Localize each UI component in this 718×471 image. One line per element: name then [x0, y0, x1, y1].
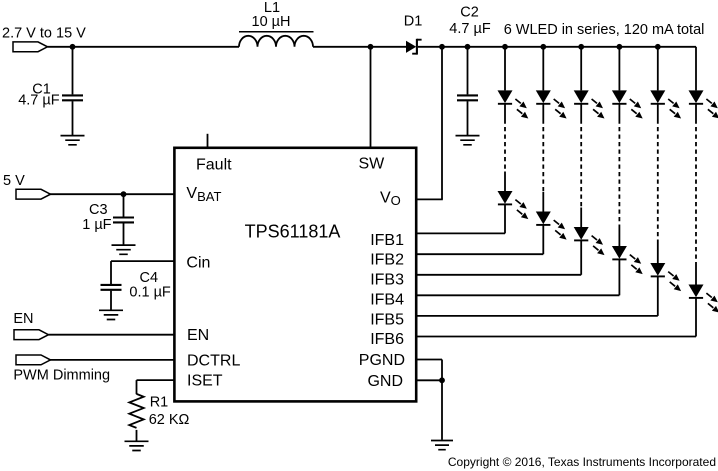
wire rail to diode	[313, 46, 406, 48]
capacitor C4	[101, 270, 171, 310]
LED D3B (string 3 bottom)	[574, 227, 605, 255]
svg-text:1 µF: 1 µF	[82, 217, 111, 233]
wire Cin pin	[111, 260, 174, 262]
wire LED string 4 top	[618, 47, 620, 91]
resistor R1 62 KOhm	[129, 394, 189, 441]
wire DCTRL	[49, 359, 175, 361]
svg-text:IFB4: IFB4	[370, 291, 404, 308]
wire EN	[49, 334, 175, 336]
ground (C4)	[99, 310, 123, 319]
inductor L1 10 uH	[239, 0, 314, 47]
node SW junction	[368, 44, 374, 50]
svg-text:PGND: PGND	[359, 352, 405, 369]
wire LED string 3 middle (dashed)	[580, 104, 582, 120]
svg-text:6 WLED in series, 120 mA total: 6 WLED in series, 120 mA total	[504, 22, 705, 38]
node LED string 5 junction	[655, 44, 661, 50]
wire GND down	[441, 380, 443, 440]
LED D5B (string 5 bottom)	[650, 263, 681, 291]
capacitor C1	[18, 47, 83, 136]
svg-text:C2: C2	[460, 5, 479, 21]
svg-text:2.7 V to 15 V: 2.7 V to 15 V	[2, 26, 86, 42]
wire LED string 5 top	[657, 47, 659, 91]
wire ISET to R1	[137, 379, 175, 381]
wire top rail left	[48, 46, 240, 48]
svg-text:TPS61181A: TPS61181A	[245, 222, 341, 242]
svg-text:IFB6: IFB6	[370, 331, 404, 348]
capacitor C3	[82, 194, 134, 245]
svg-text:Cin: Cin	[186, 254, 210, 271]
LED D4A (string 4 top)	[612, 90, 643, 118]
ground (C1)	[61, 136, 85, 145]
svg-text:0.1 µF: 0.1 µF	[129, 285, 171, 301]
input tag EN	[13, 311, 48, 339]
wire LED string 5 middle (dashed)	[657, 104, 659, 120]
pin Fault stub	[207, 134, 209, 148]
svg-text:IFB1: IFB1	[370, 232, 404, 249]
IC U1 TPS61181A box	[174, 148, 416, 402]
svg-text:VO: VO	[380, 190, 401, 209]
wire LED string 2 top	[542, 47, 544, 91]
node GND junction	[439, 377, 445, 383]
wire LED string 3 top	[580, 47, 582, 91]
ground (C3)	[112, 245, 136, 254]
wire LED string 4 middle (dashed)	[618, 104, 620, 120]
wire LED string 6 to IFB6	[695, 298, 697, 337]
svg-text:D1: D1	[404, 13, 423, 29]
wire LED string 1 to IFB1	[504, 204, 506, 233]
LED D3A (string 3 top)	[574, 90, 605, 118]
node 5V junction	[121, 191, 127, 197]
node LED string 1 junction	[502, 44, 508, 50]
ground (GND pin)	[431, 441, 453, 450]
svg-text:ISET: ISET	[187, 373, 223, 390]
wire LED string 1 middle (dashed)	[504, 104, 506, 120]
svg-text:PWM Dimming: PWM Dimming	[13, 367, 110, 383]
wire LED string 2 middle (dashed)	[542, 104, 544, 120]
wire LED string 4 to IFB4	[618, 259, 620, 295]
LED D2B (string 2 bottom)	[536, 212, 567, 240]
svg-text:4.7 µF: 4.7 µF	[18, 92, 60, 108]
LED D5A (string 5 top)	[650, 90, 681, 118]
wire LED string 6 top	[695, 47, 697, 91]
svg-text:EN: EN	[13, 311, 33, 327]
input tag 2.7V-15V	[2, 26, 86, 52]
wire 5V to VBAT	[49, 193, 175, 195]
svg-text:VBAT: VBAT	[186, 185, 221, 204]
LED D2A (string 2 top)	[536, 90, 567, 118]
wire SW node down to IC	[370, 47, 372, 148]
svg-text:IFB3: IFB3	[370, 272, 404, 289]
wire LED string 1 top	[504, 47, 506, 91]
LED D1B (string 1 bottom)	[498, 191, 529, 219]
svg-text:EN: EN	[187, 327, 209, 344]
ground (R1)	[125, 441, 149, 450]
wire top rail right	[418, 46, 696, 48]
wire LED string 5 to IFB5	[657, 276, 659, 316]
node VIN junction	[70, 44, 76, 50]
LED D4B (string 4 bottom)	[612, 246, 643, 274]
svg-text:DCTRL: DCTRL	[187, 352, 240, 369]
node VO junction	[439, 44, 445, 50]
svg-text:IFB5: IFB5	[370, 311, 404, 328]
input tag PWM Dimming	[13, 355, 110, 383]
svg-text:4.7 µF: 4.7 µF	[449, 21, 491, 37]
input tag 5V	[3, 173, 51, 199]
diode D1 (schottky)	[404, 13, 423, 54]
wire LED string 6 middle (dashed)	[695, 104, 697, 120]
node C2 junction	[465, 44, 471, 50]
wire PGND	[416, 359, 442, 361]
svg-text:Fault: Fault	[196, 157, 232, 174]
svg-text:5 V: 5 V	[3, 173, 25, 189]
wire VO to IC	[441, 47, 443, 200]
svg-text:10 µH: 10 µH	[252, 14, 291, 30]
node LED string 3 junction	[578, 44, 584, 50]
svg-text:C3: C3	[89, 202, 108, 218]
ground (C2)	[456, 136, 480, 145]
wire LED string 2 to IFB2	[542, 225, 544, 254]
svg-text:R1: R1	[150, 395, 169, 411]
capacitor C2	[449, 5, 491, 136]
svg-text:62 KΩ: 62 KΩ	[149, 412, 190, 428]
node LED string 2 junction	[540, 44, 546, 50]
wire GND	[416, 379, 442, 381]
svg-text:GND: GND	[367, 373, 403, 390]
svg-text:Copyright © 2016, Texas Instru: Copyright © 2016, Texas Instruments Inco…	[448, 455, 716, 469]
wire LED string 3 to IFB3	[580, 240, 582, 274]
LED D1A (string 1 top)	[498, 90, 529, 118]
svg-text:SW: SW	[359, 156, 386, 173]
svg-text:IFB2: IFB2	[370, 252, 404, 269]
LED D6B (string 6 bottom)	[689, 285, 718, 313]
node LED string 4 junction	[617, 44, 623, 50]
LED D6A (string 6 top)	[689, 90, 718, 118]
